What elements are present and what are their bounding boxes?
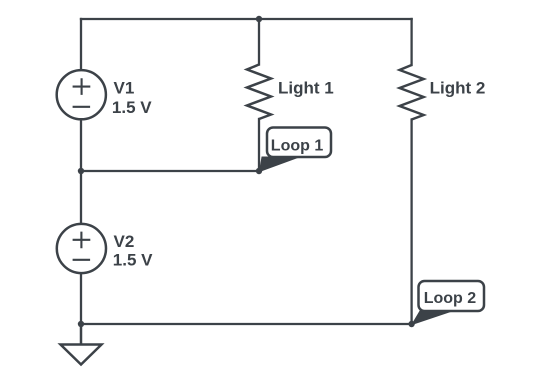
callout Loop 1 (260, 128, 332, 172)
junction dot top (node at top rail / Light 1) (256, 16, 262, 22)
junction node A (V1- / V2+) (78, 168, 84, 174)
svg-text:Light 1: Light 1 (278, 78, 334, 97)
svg-text:Loop 2: Loop 2 (424, 290, 477, 307)
svg-text:1.5 V: 1.5 V (113, 251, 153, 270)
svg-text:V1: V1 (114, 79, 135, 98)
wire V2 bottom to ground node (80, 274, 82, 325)
wire V1 bottom to node A (80, 120, 82, 171)
wire Light 1 top lead (258, 19, 260, 65)
svg-text:Loop 1: Loop 1 (271, 138, 324, 155)
voltage source V1 (57, 70, 106, 119)
resistor Light 2 (400, 65, 424, 120)
svg-text:V2: V2 (114, 232, 135, 251)
wire left upper (top rail to V1) (80, 19, 82, 70)
wire node A to V2 (80, 171, 82, 224)
callout Loop 2 (412, 281, 484, 325)
svg-text:1.5 V: 1.5 V (112, 98, 152, 117)
wire middle horizontal (node A to Light 1 bottom) (81, 170, 259, 172)
junction dot bottom right (408, 321, 414, 327)
voltage source V2 (57, 224, 106, 273)
junction dot Light 1 bottom (256, 168, 262, 174)
label V2 value (113, 232, 153, 270)
wire bottom horizontal (81, 323, 412, 325)
svg-text:Light 2: Light 2 (430, 78, 486, 97)
wire right vertical (top rail to Light 2) (410, 19, 412, 65)
wire Light 2 bottom lead to bottom rail (410, 120, 412, 325)
wire Light 1 bottom lead (258, 119, 260, 171)
wire top horizontal (81, 18, 412, 20)
junction ground node (78, 321, 84, 327)
label V1 value (112, 79, 152, 117)
ground (61, 324, 102, 365)
resistor Light 1 (247, 65, 271, 120)
